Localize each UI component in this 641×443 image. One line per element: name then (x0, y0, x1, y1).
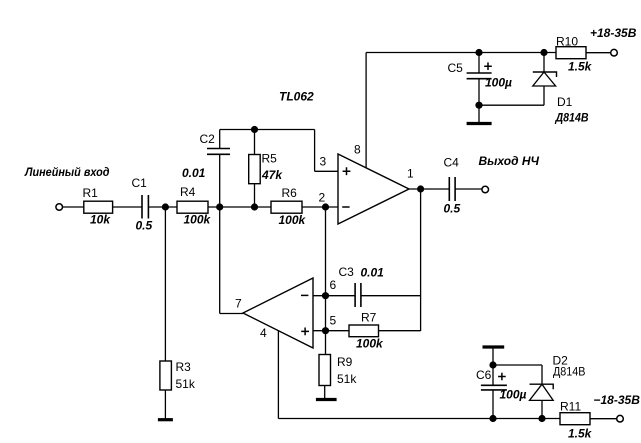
minus sign U1B (301, 294, 308, 296)
wire C2 bottom lead down through bus to op-amp2 output level (219, 154, 221, 313)
node junction output (417, 185, 424, 192)
wire C2 top lead (219, 130, 221, 149)
node junction pin6 (322, 292, 329, 299)
resistor R6 (271, 201, 302, 213)
wire op-amp output to C4 (409, 188, 449, 190)
svg-text:R6: R6 (282, 186, 298, 200)
svg-text:7: 7 (235, 297, 242, 311)
svg-text:2: 2 (319, 191, 326, 205)
svg-text:100k: 100k (356, 337, 384, 351)
node junction D2 bottom (538, 415, 545, 422)
node junction R5 top (251, 126, 258, 133)
resistor R3 (160, 361, 172, 390)
wire D1 bottom lead (543, 86, 545, 105)
node junction C6 top (489, 361, 496, 368)
wire ground to C6 top junction (492, 349, 494, 386)
svg-text:R9: R9 (337, 355, 353, 369)
svg-text:100µ: 100µ (500, 388, 527, 402)
capacitor C4 (448, 177, 450, 201)
resistor R5 (249, 155, 261, 184)
wire R7 right to feedback vertical (379, 330, 421, 332)
svg-text:6: 6 (330, 278, 337, 292)
bottom rail (278, 418, 560, 420)
resistor R10 (556, 47, 586, 59)
svg-text:R11: R11 (560, 400, 581, 414)
node junction pin2 (322, 203, 329, 210)
svg-text:C5: C5 (448, 61, 464, 75)
svg-text:C3: C3 (339, 265, 355, 279)
output terminal (482, 186, 489, 193)
-V terminal (617, 415, 624, 422)
svg-text:Д814В: Д814В (553, 365, 586, 379)
svg-text:R1: R1 (83, 186, 99, 200)
svg-text:R5: R5 (262, 152, 278, 166)
svg-text:47k: 47k (261, 168, 283, 182)
wire C3 right to feedback vertical (361, 295, 421, 297)
wire pin7 from apex to left (220, 313, 243, 315)
node junction C1/R4/R3 (162, 203, 169, 210)
power rail top (366, 52, 556, 54)
resistor R11 (560, 413, 590, 425)
svg-text:TL062: TL062 (279, 90, 314, 104)
node junction C6 bottom (489, 415, 496, 422)
diode D2 cathode bar (530, 384, 554, 389)
capacitor C6 (481, 384, 507, 386)
wire R3 to ground (164, 390, 166, 419)
ground above C6 (483, 345, 505, 348)
svg-text:0.5: 0.5 (444, 202, 461, 216)
wire pin2 vertical to pin6/pin5/R9 (325, 207, 327, 355)
wire D2 top lead (541, 365, 543, 384)
wire pin4 down to bottom rail (277, 331, 279, 419)
svg-text:1.5k: 1.5k (568, 60, 593, 74)
svg-text:Выход НЧ: Выход НЧ (479, 154, 540, 168)
wire R5 bottom lead (254, 184, 256, 207)
svg-text:3: 3 (320, 155, 327, 169)
wire R6 to op-amp inverting input (302, 206, 338, 208)
plus sign C6 (498, 373, 506, 381)
svg-text:R3: R3 (176, 360, 192, 374)
wire R11 to -V terminal (590, 418, 617, 420)
wire input to R1 (63, 206, 84, 208)
wire D1 top lead (543, 53, 545, 73)
node junction pin5 (322, 327, 329, 334)
ground under R3 (158, 418, 173, 421)
ground under C5 (467, 122, 492, 125)
wire C4 to output terminal (455, 188, 482, 190)
minus sign U1A (342, 206, 349, 208)
wire C5 bottom lead (478, 79, 480, 122)
+V terminal (611, 49, 618, 56)
svg-text:Линейный вход: Линейный вход (24, 165, 109, 179)
wire R1 to C1 (113, 206, 142, 208)
svg-text:100k: 100k (279, 213, 307, 227)
plus sign U1B (301, 328, 309, 336)
svg-text:R10: R10 (556, 35, 578, 49)
wire pin6 row (313, 295, 355, 297)
wire R9 to ground (324, 386, 326, 399)
diode D1 cathode bar (533, 72, 557, 77)
svg-text:Д814В: Д814В (555, 111, 589, 125)
plus sign U1A (343, 167, 351, 175)
plus sign C5 (484, 62, 492, 70)
svg-text:+18-35В: +18-35В (590, 26, 637, 40)
svg-text:C6: C6 (476, 368, 492, 382)
wire R10 to +V terminal (586, 52, 611, 54)
svg-text:51k: 51k (176, 377, 196, 391)
capacitor C5 (467, 72, 492, 74)
capacitor C1 (141, 195, 143, 219)
resistor R7 (349, 325, 379, 337)
wire C5 bottom to D1 (479, 104, 544, 106)
wire R5 top lead (254, 130, 256, 155)
svg-text:5: 5 (330, 314, 337, 328)
op-amp U1A (338, 154, 409, 224)
svg-text:1.5k: 1.5k (568, 427, 593, 441)
wire D2 bottom lead (541, 400, 543, 418)
svg-text:R7: R7 (361, 311, 377, 325)
wire C6 bottom lead (492, 390, 494, 419)
wire C6 junction to D2 (493, 364, 542, 366)
svg-text:C2: C2 (200, 132, 216, 146)
svg-text:C1: C1 (132, 176, 148, 190)
svg-text:0.01: 0.01 (361, 266, 385, 280)
wire C1 to R4 (148, 206, 177, 208)
node junction R5 bottom on bus (251, 203, 258, 210)
wire top rail C2 to pin3 bend (220, 129, 315, 131)
node junction C2 lead on bus (216, 203, 223, 210)
svg-text:D1: D1 (557, 95, 573, 109)
svg-text:100µ: 100µ (485, 76, 512, 90)
wire output feedback vertical (420, 189, 422, 331)
svg-text:R4: R4 (180, 185, 196, 199)
node junction D1 top (540, 49, 547, 56)
diode D1 triangle (533, 72, 556, 86)
node junction C5 top (475, 49, 482, 56)
svg-text:0.01: 0.01 (182, 166, 206, 180)
capacitor C3 (354, 283, 356, 307)
resistor R4 (177, 201, 208, 213)
svg-text:C4: C4 (444, 156, 460, 170)
wire pin3 bend down (314, 130, 316, 172)
wire R4 to R6 (208, 206, 271, 208)
svg-text:0.5: 0.5 (136, 219, 153, 233)
svg-text:51k: 51k (337, 372, 357, 386)
op-amp U1B (243, 278, 313, 348)
resistor R9 (319, 355, 331, 386)
input terminal (56, 204, 63, 211)
wire C5 top lead (478, 53, 480, 74)
wire pin5 row (313, 330, 349, 332)
diode D2 triangle (530, 384, 554, 400)
svg-text:8: 8 (354, 143, 361, 157)
ground under R9 (316, 398, 337, 401)
capacitor C2 (207, 148, 230, 150)
wire pin3 into op-amp (315, 170, 338, 172)
svg-text:1: 1 (407, 167, 414, 181)
svg-text:4: 4 (260, 326, 267, 340)
svg-text:10k: 10k (90, 213, 111, 227)
wire pin8 (365, 53, 367, 168)
resistor R1 (84, 201, 113, 213)
svg-text:100k: 100k (184, 213, 212, 227)
svg-text:−18-35В: −18-35В (594, 393, 641, 407)
node junction C5 bottom (475, 102, 482, 109)
wire R3 branch vertical (164, 207, 166, 361)
